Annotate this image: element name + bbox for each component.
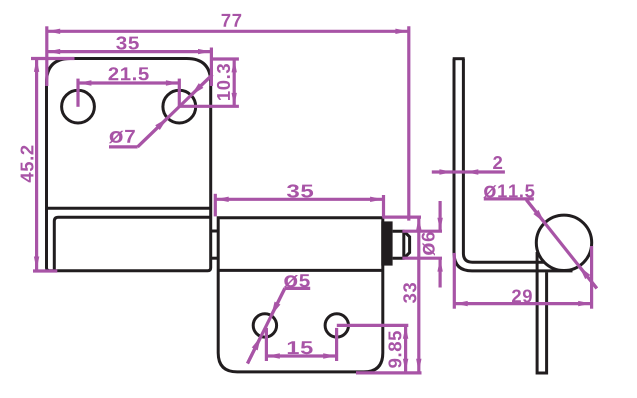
dim text 21.5: [109, 67, 149, 80]
dia 5 leader line: [248, 288, 285, 363]
dia 7 arrow 2: [191, 75, 212, 96]
dia 11.5 arrow 1: [526, 200, 544, 223]
dim 9.85 top tick from hole center: [337, 324, 409, 327]
dim 35 lower right extension: [382, 195, 385, 218]
dim text dia5: [283, 274, 309, 287]
dim 45.2 top tick: [31, 57, 75, 60]
dim 21.5 right extension into hole: [178, 79, 181, 107]
dia 7 arrow 1: [138, 118, 168, 147]
dim 10.3 line: [233, 59, 236, 106]
dia 5 arrow 2: [248, 337, 261, 364]
dim 77 line: [47, 30, 409, 33]
dim o6 bottom tick: [402, 257, 442, 260]
dim text 15: [288, 341, 313, 354]
upper leaf plate outline: [47, 59, 211, 271]
dim text 35 top: [116, 36, 139, 49]
dim text 35 lower: [287, 184, 313, 197]
dim 35 lower line: [215, 198, 383, 201]
hole upper-left: [62, 90, 95, 123]
dia 5 underline: [285, 287, 310, 290]
dim 45.2 bottom tick: [33, 269, 57, 272]
dim 33 / 9.85 bottom tick: [356, 371, 422, 374]
dim 77 left extension line: [45, 26, 48, 86]
dim 2 left arrow: [432, 170, 453, 173]
dia 11.5 underline: [484, 197, 534, 200]
dim o6 bottom arrow tail: [439, 258, 442, 287]
dim text dia7: [109, 130, 135, 143]
dim 10.3 top tick: [213, 57, 239, 60]
side view outer L edge: [454, 59, 573, 271]
lower leaf outline: [218, 218, 383, 372]
dim text 29: [512, 290, 532, 303]
dim 21.5 left extension into hole: [76, 79, 79, 107]
dia 11.5 arrow 2: [579, 266, 597, 288]
dim 35 lower left extension: [214, 194, 217, 217]
dim text 33: [403, 283, 416, 303]
dim text o6: [422, 232, 435, 255]
dim 33 top tick: [383, 216, 422, 219]
dia 7 underline: [109, 145, 138, 148]
dim text dia11.5: [483, 185, 534, 198]
side view barrel circle: [536, 215, 591, 270]
dim 77 right extension line: [407, 26, 410, 220]
dim o6 top arrow tail: [439, 201, 442, 231]
pin chamfer edge line: [402, 231, 405, 258]
dim text 2: [493, 156, 502, 169]
dim 45.2 line: [35, 59, 38, 270]
dim 35 top line: [47, 50, 212, 53]
dim 2 right arrow with tail: [465, 170, 505, 173]
lower leaf knuckle bottom line: [218, 269, 383, 272]
hole upper-right: [163, 90, 196, 123]
dim 35 top right extension line: [210, 48, 213, 87]
pin tick bottom in gap: [212, 257, 219, 260]
dim 9.85 line: [404, 325, 407, 372]
dim 21.5 line: [78, 81, 179, 84]
side view inner L edge: [463, 59, 545, 263]
dim text 77: [222, 14, 242, 27]
upper plate bottom fold line: [47, 207, 211, 210]
dia 7 leader line: [138, 75, 213, 147]
dia 5 arrow 1: [271, 288, 285, 315]
side view strip top cap: [453, 57, 465, 60]
dim 15 line: [266, 354, 336, 357]
dim 29 left extension: [453, 253, 456, 309]
dim 2 crossing segment: [453, 170, 465, 173]
pin washer (filled): [381, 221, 392, 265]
dim o6 top tick: [402, 230, 442, 233]
upper leaf barrel top edge and left cap: [54, 217, 210, 270]
dim text 10.3: [217, 64, 230, 100]
hole lower-right: [325, 314, 348, 337]
dim text 9.85: [388, 331, 401, 368]
hole lower-left: [253, 314, 276, 337]
dim 33 line: [417, 217, 420, 372]
dim 15 right extension: [335, 328, 338, 361]
dim 29 right extension: [590, 246, 593, 309]
dim 15 left extension: [265, 328, 268, 361]
dim 10.3 bottom tick: [179, 105, 239, 108]
dim 29 line: [454, 302, 591, 305]
side view hanging leaf strip: [537, 252, 547, 373]
dim text 45.2: [21, 146, 34, 183]
hinge pin end: [393, 231, 410, 258]
pin tick top in gap: [212, 230, 219, 233]
dia 11.5 leader line: [526, 200, 596, 289]
